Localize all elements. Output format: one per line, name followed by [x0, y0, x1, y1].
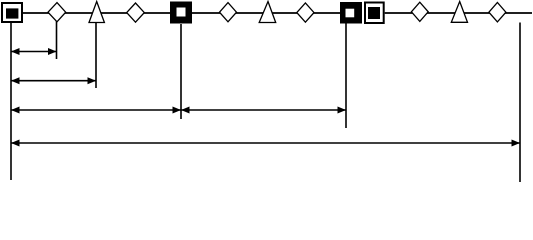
dimension arrow A2 (E1 to T1) [11, 77, 96, 84]
dimension arrow A3 (E1 to E2) [11, 107, 181, 114]
dimension arrow A5 (full span) [11, 140, 520, 147]
triangle T3 [451, 2, 467, 23]
wire: drop line V4 from square E2 [180, 24, 182, 119]
diamond D6 [489, 3, 506, 22]
square E2 (filled square with white center) [170, 2, 192, 24]
diamond D4 [297, 3, 314, 22]
wire: drop line V3 from triangle T1 [95, 23, 97, 88]
dimension arrow A1 (E1 to D1) [11, 48, 57, 55]
square E1 (outlined square with filled center) [2, 3, 22, 22]
wire: drop line V5 from square pair E3 [345, 23, 347, 128]
wire: drop line V1 from square E1 [10, 23, 12, 180]
wire: drop line V6 right terminal [519, 23, 521, 183]
triangle T1 [89, 2, 104, 23]
diamond D5 [411, 2, 428, 21]
diamond D2 [127, 3, 145, 22]
square pair E3: filled square with white center [340, 2, 385, 24]
diamond D1 [48, 3, 66, 22]
dimension arrow A4 (E2 to E3) [181, 107, 346, 114]
diamond D3 [220, 3, 237, 22]
wire: main event line [22, 12, 532, 14]
triangle T2 [259, 2, 276, 23]
square pair E3: outlined square with filled center [365, 3, 384, 24]
wire: drop line V2 from diamond D1 [56, 20, 58, 59]
